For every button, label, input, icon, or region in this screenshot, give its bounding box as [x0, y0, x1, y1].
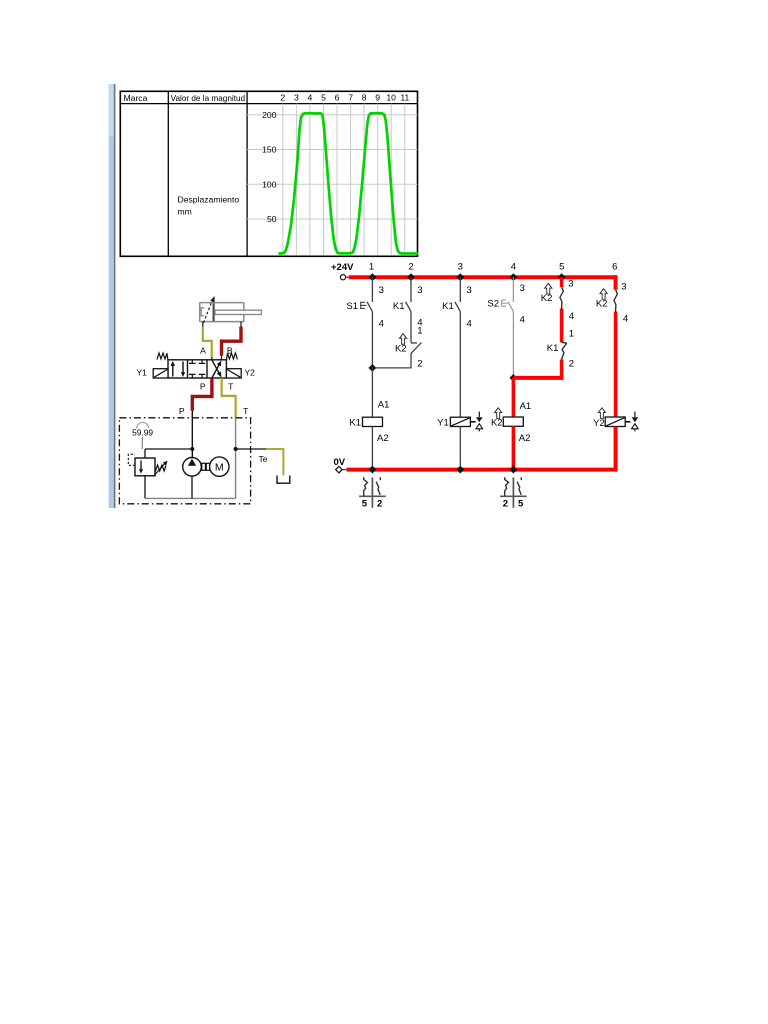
relief pilot line (dashed)	[128, 454, 135, 465]
wire S1 to node A	[371, 312, 373, 368]
cylinder port stubs	[202, 322, 204, 328]
svg-text:1: 1	[417, 326, 422, 337]
svg-text:S1: S1	[346, 301, 358, 312]
chart horizontal gridlines	[247, 115, 417, 219]
tank symbol	[277, 476, 290, 484]
svg-text:1: 1	[569, 328, 574, 339]
piston	[213, 303, 215, 321]
node 1 on +24V rail	[368, 273, 376, 281]
svg-text:6: 6	[612, 262, 617, 273]
valve position 1 arrows (parallel)	[173, 362, 183, 377]
displacement curve (green)	[280, 113, 418, 253]
svg-text:mm: mm	[178, 207, 192, 217]
svg-text:2: 2	[280, 93, 285, 103]
wire rail to K1 contact	[410, 277, 412, 302]
power unit enclosure (dash-dot)	[119, 418, 250, 504]
chart vertical gridlines	[283, 104, 405, 256]
pump P1	[183, 458, 202, 477]
coupling	[202, 463, 206, 470]
Te line to tank (olive)	[266, 449, 283, 475]
svg-text:50: 50	[267, 214, 277, 224]
node on 0V rail col1	[368, 466, 376, 474]
node 3 on +24V rail	[456, 273, 464, 281]
svg-text:T: T	[243, 406, 249, 416]
svg-text:5: 5	[559, 262, 564, 273]
svg-text:Marca: Marca	[124, 93, 148, 103]
relief valve spring	[155, 465, 166, 472]
svg-text:2: 2	[503, 498, 508, 509]
svg-text:5: 5	[518, 498, 524, 509]
svg-text:K1: K1	[547, 343, 559, 354]
table inner borders	[120, 91, 417, 256]
svg-text:3: 3	[458, 262, 463, 273]
actuated indicator arrow K2	[545, 283, 552, 294]
svg-text:2: 2	[569, 358, 574, 369]
svg-text:6: 6	[335, 93, 340, 103]
wire contact to coil Y1	[459, 312, 461, 418]
svg-text:2: 2	[417, 358, 422, 369]
svg-text:K2: K2	[596, 299, 608, 310]
limit switch position indicator col4 (2|5)	[500, 477, 527, 507]
hydraulic line B (pressure, dark red) cylinder to valve port B	[222, 327, 242, 356]
svg-text:4: 4	[520, 314, 525, 325]
svg-text:4: 4	[467, 318, 472, 329]
motor M1	[210, 457, 229, 476]
junction gauge/relief branch	[190, 447, 194, 451]
svg-text:1: 1	[369, 262, 374, 273]
+24V rail (energized red)	[349, 275, 616, 279]
svg-text:8: 8	[362, 93, 367, 103]
svg-text:3: 3	[417, 285, 422, 296]
svg-text:K1: K1	[349, 418, 361, 429]
svg-text:M: M	[215, 462, 224, 474]
red stub rail to K2 contact	[560, 277, 564, 287]
svg-text:11: 11	[400, 93, 409, 103]
svg-text:+24V: +24V	[331, 262, 354, 273]
svg-text:A1: A1	[520, 401, 532, 412]
svg-text:5: 5	[321, 93, 326, 103]
0V rail (energized red)	[347, 468, 616, 472]
svg-text:K1: K1	[442, 301, 454, 312]
cushion bracket	[201, 308, 204, 316]
svg-text:A2: A2	[377, 433, 389, 444]
wire rail to S2 (no current, gray)	[512, 277, 514, 302]
svg-text:3: 3	[379, 285, 384, 296]
limit switch position indicator col1 (5|2)	[359, 477, 386, 507]
pressure line P valve to power unit (dark red)	[192, 378, 212, 411]
svg-text:4: 4	[511, 262, 516, 273]
svg-text:K2: K2	[541, 293, 553, 304]
pump pressure line inside power unit	[191, 418, 193, 458]
node 5 on +24V rail	[558, 273, 566, 281]
svg-text:A2: A2	[519, 433, 531, 444]
relief valve to tank line	[144, 476, 146, 499]
node 2 on +24V rail	[407, 273, 415, 281]
wire node A to coil K1	[371, 368, 373, 417]
svg-text:A: A	[200, 345, 206, 355]
svg-text:3: 3	[294, 93, 299, 103]
actuated indicator arrow K2	[400, 334, 407, 345]
node on 0V rail col3	[456, 466, 464, 474]
svg-text:4: 4	[569, 311, 574, 322]
svg-text:4: 4	[379, 318, 384, 329]
tank line T valve to power unit (olive)	[222, 378, 236, 418]
wire rail to S1	[371, 277, 373, 302]
node A junction	[368, 364, 376, 372]
node 4 on +24V rail	[509, 273, 517, 281]
svg-text:K1: K1	[393, 301, 405, 312]
actuated indicator arrow K2 coil	[495, 408, 502, 419]
4/3 way valve V1 body	[168, 360, 226, 378]
svg-text:150: 150	[262, 145, 277, 155]
actuated indicator arrow K2	[600, 289, 607, 300]
y axis labels	[262, 110, 277, 224]
valve link symbol Y2	[625, 421, 630, 423]
hydraulic line A (tank side, olive) cylinder to valve port A	[203, 327, 212, 358]
left return spring	[157, 353, 168, 360]
tank return manifold	[145, 497, 236, 499]
solenoid Y2 box	[226, 369, 241, 378]
displacement sensor arrow	[204, 300, 213, 323]
svg-text:200: 200	[262, 110, 277, 120]
wire S2 to node B (gray)	[512, 312, 514, 378]
wire node B to coil K2 (red)	[512, 378, 516, 417]
svg-text:3: 3	[467, 285, 472, 296]
svg-text:5: 5	[362, 498, 368, 509]
svg-text:P: P	[179, 406, 185, 416]
svg-text:3: 3	[520, 283, 525, 294]
svg-text:Desplazamiento: Desplazamiento	[178, 195, 240, 205]
energized link node B to K1 contact (red)	[513, 376, 561, 380]
svg-text:K2: K2	[491, 418, 503, 429]
svg-text:3: 3	[568, 279, 573, 290]
cylinder A (double acting with position arrow)	[200, 296, 262, 327]
pressure gauge 59.99	[137, 422, 149, 428]
wire coil K1 to 0V rail	[371, 427, 373, 468]
svg-text:Y1: Y1	[437, 418, 449, 429]
node B junction	[509, 374, 517, 382]
svg-text:100: 100	[262, 179, 277, 189]
actuated indicator arrow Y2	[598, 408, 605, 419]
red stub K1 contact to link	[560, 360, 564, 380]
svg-text:9: 9	[375, 93, 380, 103]
svg-text:P: P	[200, 381, 206, 391]
svg-text:2: 2	[408, 262, 413, 273]
wire K2 contact to K1 contact (red)	[560, 309, 564, 343]
junction Te branch	[234, 447, 238, 451]
svg-text:10: 10	[386, 93, 396, 103]
svg-text:S2: S2	[487, 299, 499, 310]
red drop from +24V rail corner	[614, 275, 618, 290]
svg-text:Y1: Y1	[137, 368, 148, 378]
cylinder body	[200, 303, 244, 322]
svg-text:4: 4	[623, 314, 628, 325]
wire K2 contact to node A	[375, 353, 411, 368]
column numbers 1-6	[369, 262, 618, 273]
svg-text:K2: K2	[395, 343, 407, 354]
svg-text:59.99: 59.99	[132, 427, 153, 437]
svg-text:4: 4	[308, 93, 313, 103]
svg-text:7: 7	[348, 93, 353, 103]
piston rod	[215, 310, 261, 314]
svg-text:Y2: Y2	[245, 368, 256, 378]
wire K2 contact to coil Y2 (red)	[614, 312, 618, 418]
state diagram table frame	[120, 91, 417, 256]
tank line inside power unit	[235, 418, 237, 499]
right return spring	[227, 353, 238, 360]
solenoid Y1 box	[153, 369, 168, 378]
svg-text:2: 2	[377, 498, 382, 509]
wire K1 contact to K2 contact	[410, 312, 412, 343]
wire coil Y2 to 0V rail (red)	[614, 427, 618, 472]
wire coil K2 to 0V rail (red)	[512, 426, 516, 469]
svg-text:A1: A1	[378, 400, 390, 411]
svg-text:Y2: Y2	[593, 418, 605, 429]
relief valve	[144, 449, 146, 458]
wire coil Y1 to 0V rail	[459, 427, 461, 468]
svg-text:T: T	[228, 381, 234, 391]
valve link symbol Y1	[470, 421, 475, 423]
svg-text:Valor de la magnitud: Valor de la magnitud	[171, 94, 246, 103]
x axis tick labels 2..11	[280, 93, 409, 103]
wire rail to K1 contact	[459, 277, 461, 302]
svg-text:0V: 0V	[334, 457, 346, 468]
svg-text:Te: Te	[259, 454, 268, 464]
svg-text:3: 3	[621, 281, 626, 292]
valve position 2 blocked center T marks	[189, 360, 205, 378]
scrollbar strip left window edge	[109, 84, 116, 508]
valve position 3 crossed arrows	[212, 360, 220, 378]
node on 0V rail col4	[509, 466, 517, 474]
